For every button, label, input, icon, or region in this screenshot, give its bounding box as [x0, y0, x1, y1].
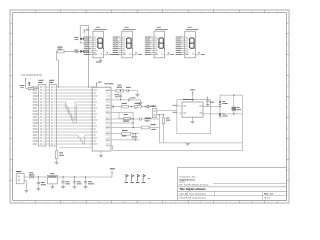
svg-text:7: 7: [175, 11, 176, 13]
svg-text:3: 3: [73, 11, 74, 13]
svg-text:1: 1: [22, 202, 23, 204]
svg-text:5: 5: [124, 11, 125, 13]
svg-text:LCD display dimming: LCD display dimming: [21, 74, 42, 76]
svg-text:Size: A4: Size: A4: [180, 193, 188, 196]
svg-text:6: 6: [149, 11, 150, 13]
svg-text:6: 6: [149, 202, 150, 204]
svg-text:File: ICL7107_Module_41wd.sch: File: ICL7107_Module_41wd.sch: [180, 184, 209, 186]
svg-text:Title: Digital voltmeter: Title: Digital voltmeter: [180, 188, 206, 191]
svg-text:2: 2: [47, 202, 48, 204]
svg-text:4: 4: [98, 11, 99, 13]
svg-text:7: 7: [175, 202, 176, 204]
svg-text:9: 9: [226, 202, 227, 204]
svg-text:2: 2: [47, 11, 48, 13]
svg-text:1: 1: [22, 11, 23, 13]
svg-text:KiCad E.D.A. kicad (5.1.5)-3: KiCad E.D.A. kicad (5.1.5)-3: [180, 197, 207, 200]
svg-text:11: 11: [277, 202, 279, 204]
svg-text:9: 9: [226, 11, 227, 13]
svg-text:Date: 2021-05-14: Date: 2021-05-14: [190, 193, 207, 196]
svg-text:10: 10: [251, 202, 253, 204]
svg-text:3: 3: [73, 202, 74, 204]
svg-text:10: 10: [251, 11, 253, 13]
svg-text:5: 5: [124, 202, 125, 204]
svg-text:4: 4: [98, 202, 99, 204]
svg-text:8: 8: [200, 11, 201, 13]
svg-text:Id: 1/1: Id: 1/1: [264, 198, 271, 200]
svg-text:11: 11: [277, 11, 279, 13]
svg-text:Rev: 1.0: Rev: 1.0: [264, 194, 273, 196]
svg-text:8: 8: [200, 202, 201, 204]
